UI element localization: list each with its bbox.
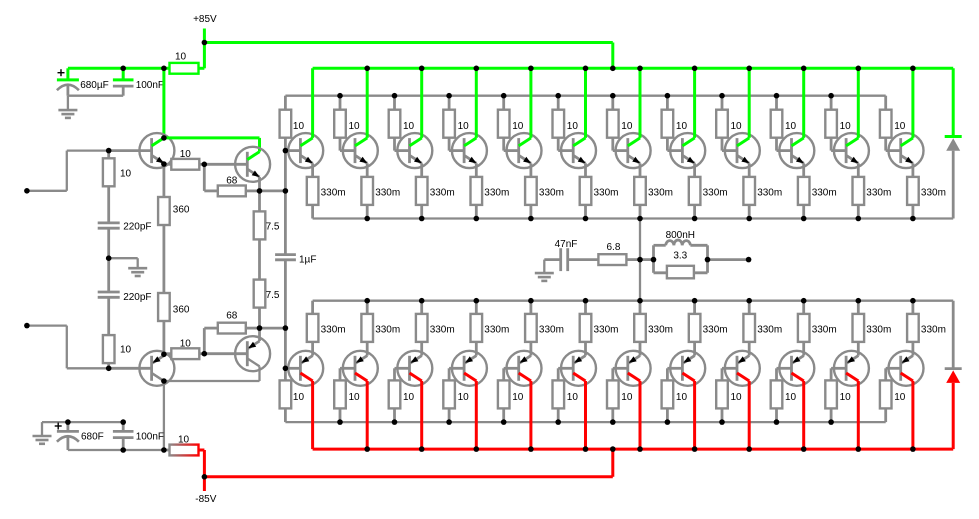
svg-text:10: 10 [458, 392, 470, 403]
svg-text:1µF: 1µF [299, 255, 316, 266]
svg-text:10: 10 [567, 121, 579, 132]
svg-text:330m: 330m [594, 188, 619, 199]
svg-text:10: 10 [676, 392, 688, 403]
svg-text:100nF: 100nF [136, 80, 164, 91]
svg-text:68: 68 [226, 176, 238, 187]
svg-text:+85V: +85V [193, 14, 217, 25]
svg-text:10: 10 [785, 392, 797, 403]
svg-text:330m: 330m [648, 188, 673, 199]
svg-text:10: 10 [512, 121, 524, 132]
svg-text:330m: 330m [921, 325, 946, 336]
svg-text:10: 10 [894, 121, 906, 132]
svg-text:10: 10 [731, 392, 743, 403]
svg-text:330m: 330m [321, 188, 346, 199]
svg-text:10: 10 [180, 149, 192, 160]
svg-text:220pF: 220pF [123, 292, 151, 303]
svg-text:360: 360 [173, 205, 190, 216]
svg-text:330m: 330m [757, 325, 782, 336]
svg-text:330m: 330m [866, 325, 891, 336]
svg-text:10: 10 [621, 121, 633, 132]
svg-text:10: 10 [175, 52, 187, 63]
svg-text:10: 10 [731, 121, 743, 132]
svg-text:10: 10 [785, 121, 797, 132]
svg-text:10: 10 [840, 121, 852, 132]
svg-text:10: 10 [180, 339, 192, 350]
svg-text:330m: 330m [539, 188, 564, 199]
svg-text:68: 68 [226, 311, 238, 322]
svg-text:330m: 330m [866, 188, 891, 199]
svg-text:7.5: 7.5 [266, 290, 280, 301]
svg-text:10: 10 [458, 121, 470, 132]
svg-text:330m: 330m [321, 325, 346, 336]
svg-text:330m: 330m [703, 325, 728, 336]
svg-text:330m: 330m [921, 188, 946, 199]
svg-text:330m: 330m [375, 325, 400, 336]
svg-text:220pF: 220pF [123, 222, 151, 233]
svg-text:10: 10 [403, 392, 415, 403]
svg-text:10: 10 [293, 121, 305, 132]
svg-text:7.5: 7.5 [266, 222, 280, 233]
svg-text:330m: 330m [375, 188, 400, 199]
svg-text:330m: 330m [430, 188, 455, 199]
svg-text:10: 10 [567, 392, 579, 403]
svg-text:10: 10 [621, 392, 633, 403]
svg-text:330m: 330m [430, 325, 455, 336]
svg-text:10: 10 [512, 392, 524, 403]
svg-text:10: 10 [349, 392, 361, 403]
svg-text:800nH: 800nH [666, 230, 695, 241]
svg-text:10: 10 [894, 392, 906, 403]
svg-text:10: 10 [120, 345, 132, 356]
svg-text:330m: 330m [594, 325, 619, 336]
svg-text:330m: 330m [484, 188, 509, 199]
svg-text:10: 10 [120, 169, 132, 180]
svg-text:6.8: 6.8 [607, 242, 621, 253]
svg-text:680F: 680F [81, 432, 104, 443]
svg-text:330m: 330m [539, 325, 564, 336]
svg-text:100nF: 100nF [136, 432, 164, 443]
svg-text:10: 10 [178, 435, 190, 446]
svg-text:360: 360 [173, 305, 190, 316]
svg-text:10: 10 [676, 121, 688, 132]
svg-text:680µF: 680µF [80, 80, 109, 91]
svg-text:10: 10 [840, 392, 852, 403]
svg-text:-85V: -85V [195, 494, 216, 505]
svg-text:10: 10 [293, 392, 305, 403]
svg-text:10: 10 [349, 121, 361, 132]
svg-text:3.3: 3.3 [673, 251, 687, 262]
svg-text:330m: 330m [812, 325, 837, 336]
svg-text:330m: 330m [484, 325, 509, 336]
svg-text:330m: 330m [757, 188, 782, 199]
svg-text:10: 10 [403, 121, 415, 132]
svg-text:330m: 330m [703, 188, 728, 199]
svg-text:330m: 330m [648, 325, 673, 336]
svg-text:330m: 330m [812, 188, 837, 199]
svg-text:47nF: 47nF [555, 239, 578, 250]
